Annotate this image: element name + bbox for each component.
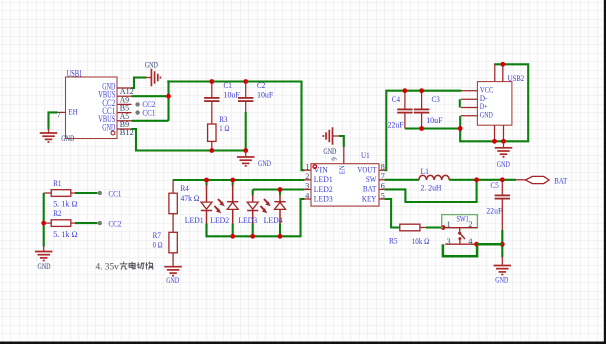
junction LED3 bottom	[250, 234, 255, 239]
wire R1 R2 left vertical	[43, 193, 45, 247]
svg-text:3: 3	[305, 182, 309, 191]
svg-text:R1: R1	[53, 178, 61, 188]
svg-text:R7: R7	[153, 230, 162, 240]
junction SW1 pin1	[441, 225, 446, 230]
svg-text:USB1: USB1	[67, 68, 83, 78]
LED LED3	[247, 190, 258, 237]
wire USB2 D- D+ short	[459, 99, 461, 107]
svg-text:10uF: 10uF	[257, 90, 273, 100]
svg-text:VOUT: VOUT	[357, 165, 376, 175]
ground (U1 EN, bars pointing left)	[323, 127, 336, 156]
wire LED top rail (U1 pin2)	[173, 179, 305, 181]
svg-text:CC1: CC1	[108, 188, 121, 198]
junction LED2 top	[230, 178, 235, 183]
svg-text:GND: GND	[166, 275, 179, 285]
svg-text:GND: GND	[495, 274, 508, 284]
svg-text:2: 2	[305, 172, 309, 181]
LED1 emission arrows	[215, 199, 225, 213]
svg-text:C4: C4	[392, 94, 401, 104]
svg-text:1 Ω: 1 Ω	[219, 123, 229, 133]
LED LED4	[274, 190, 285, 237]
junction BAT rail C5	[500, 177, 505, 182]
junction LED1 top	[204, 178, 209, 183]
wire USB1 A9 VBUS to junction	[132, 95, 169, 97]
svg-text:22uF: 22uF	[486, 205, 502, 215]
svg-text:7: 7	[381, 172, 385, 181]
wire C4 C3 bottom rail	[405, 127, 460, 129]
svg-text:GND: GND	[145, 59, 158, 69]
svg-text:LED4: LED4	[264, 215, 284, 225]
wire LED bottom rail to U1 pin4	[207, 199, 305, 236]
wire R2 to CC2 port	[75, 222, 97, 224]
svg-text:4: 4	[305, 191, 309, 200]
ground (USB1 EH)	[40, 129, 75, 143]
svg-text:4: 4	[468, 237, 472, 246]
junction USB2 shield top	[500, 62, 505, 67]
svg-text:5: 5	[381, 191, 385, 200]
svg-text:9: 9	[332, 157, 339, 161]
net port CC1 (R1)	[98, 188, 122, 198]
capacitor C4	[397, 91, 412, 129]
svg-text:1: 1	[447, 220, 451, 229]
wire SW1 pin3 to pin4 loop	[443, 244, 477, 256]
svg-text:C1: C1	[224, 80, 232, 90]
wire USB1 B9 VBUS	[132, 120, 169, 122]
ground (below R1 R2)	[35, 246, 53, 271]
svg-text:BAT: BAT	[554, 176, 567, 186]
svg-text:C3: C3	[432, 94, 441, 104]
wire U1 BAT pin loop	[385, 180, 477, 202]
wire EH pin to ground	[49, 112, 58, 129]
svg-text:LED2: LED2	[314, 184, 333, 194]
wire U1 SW to L1	[385, 179, 420, 181]
wire VBUS vertical	[167, 80, 169, 121]
ground (below C5)	[494, 257, 512, 284]
svg-text:2: 2	[468, 220, 472, 229]
IC U1	[304, 147, 386, 207]
junction top rail C2	[243, 79, 248, 84]
svg-text:5. 1k Ω: 5. 1k Ω	[53, 229, 78, 239]
svg-text:2. 2uH: 2. 2uH	[421, 182, 443, 192]
connector USB2	[461, 64, 512, 141]
resistor R3	[208, 124, 216, 151]
svg-text:CC2: CC2	[108, 219, 121, 229]
svg-text:GND: GND	[497, 159, 510, 169]
capacitor C2	[238, 82, 253, 114]
resistor R5	[400, 224, 427, 231]
svg-text:GND: GND	[480, 110, 493, 120]
connector USB1	[57, 77, 134, 139]
net port CC2 (USB1)	[135, 99, 155, 109]
junction bottom rail C3	[419, 126, 424, 131]
svg-text:GND: GND	[38, 261, 51, 271]
junction C5 bottom	[500, 242, 505, 247]
svg-text:0 Ω: 0 Ω	[153, 240, 163, 250]
svg-text:3: 3	[447, 237, 451, 246]
svg-text:5. 1k Ω: 5. 1k Ω	[53, 198, 78, 208]
junction R2 left	[41, 221, 46, 226]
svg-text:10uF: 10uF	[224, 90, 240, 100]
svg-text:CC1: CC1	[142, 107, 155, 117]
junction LED2 bottom	[230, 234, 235, 239]
junction SW1 pin4	[474, 242, 479, 247]
resistor R4	[169, 180, 177, 214]
junction USB2 bottom shield b	[501, 139, 506, 144]
net flag BAT	[516, 176, 568, 186]
resistor R1	[44, 190, 78, 197]
capacitor C5	[495, 180, 510, 232]
LED LED2	[227, 180, 238, 236]
wire USB1 B12 GND to bottom rail	[132, 129, 246, 151]
junction VCC rail C3	[419, 88, 424, 93]
ground (below C2)	[237, 151, 271, 169]
svg-text:10k Ω: 10k Ω	[412, 236, 430, 246]
wire USB2 gnd ring	[460, 64, 528, 141]
wire R1 to CC1 port	[75, 192, 97, 194]
wire U1 EN pin to ground	[333, 135, 339, 137]
wire C5 bottom	[501, 230, 503, 257]
capacitor C1	[204, 82, 219, 125]
wire USB1 A12 GND pin to ground	[132, 78, 147, 89]
svg-text:6: 6	[381, 182, 385, 191]
screenshot border bottom	[0, 342, 606, 344]
svg-text:47k Ω: 47k Ω	[181, 193, 200, 203]
junction BAT rail left	[474, 177, 479, 182]
inductor L1	[419, 175, 449, 180]
svg-text:EN: EN	[338, 165, 347, 174]
capacitor C3	[414, 91, 429, 129]
svg-text:1: 1	[305, 163, 309, 172]
LED3 emission arrows	[261, 199, 271, 213]
screenshot border right	[604, 0, 606, 344]
svg-text:L1: L1	[421, 166, 430, 176]
svg-text:LED1: LED1	[314, 174, 333, 184]
net port CC1 (USB1)	[135, 107, 155, 117]
svg-text:USB2: USB2	[508, 73, 524, 83]
junction bottom rail R3	[209, 148, 214, 153]
junction top rail C1	[209, 79, 214, 84]
svg-text:LED2: LED2	[210, 215, 229, 225]
junction LED4 bottom	[278, 234, 283, 239]
annotation 4.35v charge switching text	[96, 262, 154, 273]
svg-text:10uF: 10uF	[426, 115, 442, 125]
LED LED1	[201, 180, 212, 236]
ground (above USB1, bars pointing right)	[145, 59, 161, 86]
switch SW1	[442, 215, 478, 246]
svg-text:SW1: SW1	[457, 214, 469, 224]
wire L1 to BAT flag	[449, 179, 516, 181]
wire SW1 pin4 to C5 ground	[477, 243, 503, 246]
svg-text:GND: GND	[323, 146, 336, 156]
svg-text:R4: R4	[181, 183, 190, 193]
junction VCC rail C4	[403, 88, 408, 93]
svg-text:KEY: KEY	[362, 193, 377, 203]
svg-text:SW: SW	[366, 174, 377, 184]
junction LED4 top	[278, 187, 283, 192]
svg-text:R5: R5	[389, 236, 398, 246]
junction USB2 bottom shield a	[492, 139, 497, 144]
wire VBUS top rail to U1 VIN	[167, 82, 304, 171]
svg-text:GND: GND	[61, 133, 74, 143]
svg-text:4. 35v: 4. 35v	[96, 263, 120, 273]
svg-text:EH: EH	[68, 107, 78, 117]
wire U1 VOUT up to VCC rail	[385, 91, 462, 171]
svg-text:C2: C2	[257, 80, 265, 90]
junction USB2 gnd branch	[458, 126, 463, 131]
svg-text:U1: U1	[361, 150, 370, 160]
resistor R2	[44, 220, 78, 227]
wire C2 lower lead	[245, 112, 247, 151]
svg-text:BAT: BAT	[363, 184, 377, 194]
junction VBUS A9	[166, 94, 171, 99]
wire R5 to SW1	[426, 226, 443, 228]
wire U1 KEY to R5	[385, 199, 400, 228]
junction bottom rail C2	[243, 148, 248, 153]
svg-text:GND: GND	[258, 158, 271, 168]
wire LED2 rail (U1 pin3)	[253, 188, 305, 190]
ground (below USB2)	[495, 141, 513, 169]
net port CC2 (R2)	[98, 219, 122, 229]
svg-text:R2: R2	[53, 208, 61, 218]
svg-text:22uF: 22uF	[388, 119, 404, 129]
ground (below R7)	[164, 261, 182, 286]
resistor R7	[169, 214, 177, 261]
svg-text:C5: C5	[491, 180, 500, 190]
svg-text:LED3: LED3	[314, 193, 334, 203]
svg-text:LED1: LED1	[185, 215, 204, 225]
svg-text:LED3: LED3	[238, 215, 258, 225]
svg-text:8: 8	[381, 163, 385, 172]
